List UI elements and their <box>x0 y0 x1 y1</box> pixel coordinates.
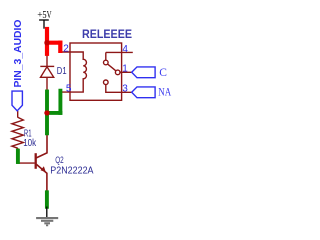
svg-text:1: 1 <box>122 63 128 74</box>
svg-text:D1: D1 <box>57 66 67 77</box>
svg-text:Q2: Q2 <box>55 154 64 165</box>
svg-text:NA: NA <box>158 87 171 99</box>
svg-text:P2N2222A: P2N2222A <box>50 166 93 177</box>
svg-text:C: C <box>159 67 167 79</box>
svg-text:4: 4 <box>122 44 128 55</box>
svg-text:PIN_3_AUDIO: PIN_3_AUDIO <box>13 19 24 87</box>
svg-text:V: V <box>47 10 52 21</box>
svg-text:10k: 10k <box>23 138 37 149</box>
svg-text:RELEEEE: RELEEEE <box>82 27 132 41</box>
svg-text:3: 3 <box>122 84 128 95</box>
svg-text:2: 2 <box>63 43 69 54</box>
svg-text:5: 5 <box>66 83 72 94</box>
